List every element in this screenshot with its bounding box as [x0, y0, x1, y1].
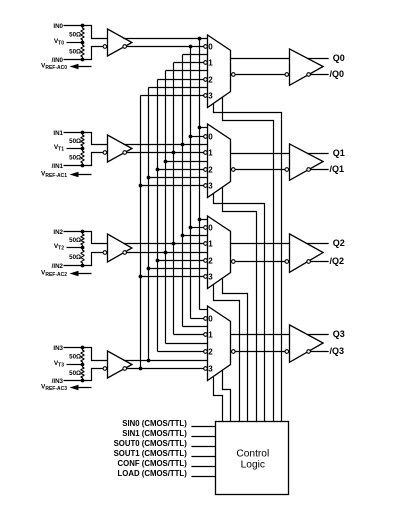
mux0 inverted output bubble [232, 73, 236, 77]
comparator U1 input bubble [103, 45, 107, 49]
wire /IN2 to comparator - input [64, 253, 104, 266]
node /IN3 junction [81, 379, 85, 383]
node junction (148.5,360.5) [147, 359, 151, 363]
mux2 input 2 bubble [204, 259, 208, 263]
comparator U1 [108, 29, 132, 56]
wire mux3 inverted output to buffer bubble [235, 351, 285, 353]
mux3 input 2 bubble [204, 350, 208, 354]
comparator U3 [108, 234, 132, 262]
svg-text:50Ω: 50Ω [69, 49, 81, 56]
svg-text:SIN0 (CMOS/TTL): SIN0 (CMOS/TTL) [122, 419, 187, 428]
svg-text:0: 0 [208, 132, 213, 141]
svg-text:/Q3: /Q3 [330, 346, 345, 356]
comparator U2 input bubble [103, 151, 107, 155]
svg-text:50Ω: 50Ω [69, 138, 81, 145]
wire mux3 input row 5 stub from v2 [158, 351, 204, 353]
wire Q2 output [307, 243, 329, 245]
svg-text:0: 0 [208, 223, 213, 232]
wire VT0 tap [67, 42, 83, 44]
node junction (173.5,152.5) [172, 151, 176, 155]
wire vertical distribution v6 (comp0 /out) [190, 47, 192, 319]
wire VT2 tap [67, 247, 83, 249]
node /IN0 junction [81, 58, 85, 62]
wire LOAD to control logic [191, 476, 215, 478]
resistor 50ohm lower (R4) [81, 149, 85, 166]
wire mux0 select B from control logic [223, 97, 274, 421]
svg-text:Q2: Q2 [333, 238, 345, 248]
wire mux1 select A from control logic [214, 193, 265, 421]
output buffer Q0 input bubble [285, 73, 289, 77]
wire mux3 input row 4 stub from v3 [166, 343, 208, 345]
resistor 50ohm upper (R7) [81, 348, 85, 365]
mux3 input 0 bubble [204, 317, 208, 321]
multiplexer MUX0 (4:1) [208, 35, 231, 108]
wire comp0 true output to mux0 input row 0 [124, 38, 208, 40]
node /IN2 junction [81, 264, 85, 268]
multiplexer MUX1 (4:1) [208, 124, 231, 198]
output buffer Q3 [290, 325, 324, 362]
node junction (182.5,144.5) [181, 143, 185, 147]
svg-text:/IN1: /IN1 [52, 163, 64, 170]
resistor 50ohm lower (R2) [81, 43, 85, 60]
wire mux0 input row 7 stub from v0 [141, 95, 204, 97]
svg-text:1: 1 [208, 148, 213, 157]
svg-text:/IN3: /IN3 [52, 378, 64, 385]
wire mux3 input row 3 stub from v4 [174, 334, 204, 336]
svg-text:/IN2: /IN2 [52, 263, 64, 270]
wire mux1 input row 0 stub from v7 [200, 127, 208, 129]
resistor 50ohm upper (R5) [81, 232, 85, 248]
wire mux0 input row 6 stub from v1 [149, 87, 208, 89]
node junction (173.5,243.5) [172, 242, 176, 246]
wire comp1 inverted output to mux1 input 1 bubble [127, 152, 204, 154]
mux0 input 3 bubble [204, 94, 208, 98]
svg-text:SIN1 (CMOS/TTL): SIN1 (CMOS/TTL) [122, 429, 187, 438]
wire /Q3 output [310, 351, 328, 353]
svg-text:CONF (CMOS/TTL): CONF (CMOS/TTL) [118, 459, 188, 468]
svg-text:IN1: IN1 [53, 130, 63, 137]
node junction (157.5,169.5) [156, 168, 160, 172]
comparator U4 output bubble [123, 367, 127, 371]
output buffer Q1 [290, 144, 324, 180]
wire SIN0 to control logic [191, 426, 215, 428]
wire mux2 input row 6 stub from v1 [149, 268, 208, 270]
wire mux2 true output to buffer [231, 243, 290, 245]
wire Q1 output [307, 153, 329, 155]
svg-text:1: 1 [208, 239, 213, 248]
svg-text:Control: Control [236, 449, 269, 460]
wire IN3 to comparator + input [64, 348, 108, 361]
svg-text:SOUT0 (CMOS/TTL): SOUT0 (CMOS/TTL) [114, 439, 188, 448]
svg-text:IN2: IN2 [53, 229, 63, 236]
svg-text:3: 3 [208, 272, 213, 281]
svg-text:Logic: Logic [241, 460, 265, 471]
input stage 2: IN2/VT2//IN2 network [41, 229, 132, 278]
input stage 3: IN3/VT3//IN3 network [41, 345, 132, 392]
comparator U4 input bubble [103, 367, 107, 371]
wire mux1 select B from control logic [223, 187, 257, 421]
svg-text:/IN0: /IN0 [52, 57, 64, 64]
input stage 1: IN1/VT1//IN1 network [41, 130, 132, 179]
svg-text:SOUT1 (CMOS/TTL): SOUT1 (CMOS/TTL) [114, 449, 188, 458]
mux2 input 0 bubble [204, 226, 208, 230]
node junction (190.5,46.5) [189, 45, 193, 49]
mux0 input 2 bubble [204, 78, 208, 82]
wire /Q2 output [310, 261, 328, 263]
mux2 input 3 bubble [204, 275, 208, 279]
control logic block [216, 422, 289, 495]
wire IN0 to comparator + input [64, 26, 108, 39]
output buffer Q3 output bubble [307, 350, 311, 354]
node IN3 junction [81, 346, 85, 350]
comparator U2 [108, 135, 132, 162]
wire mux2 inverted output to buffer bubble [235, 261, 285, 263]
svg-text:1: 1 [208, 58, 213, 67]
mux1 inverted output bubble [232, 168, 236, 172]
node junction (157.5,260.5) [156, 259, 160, 263]
arrow VREF-AC1 [74, 174, 92, 176]
svg-text:2: 2 [208, 256, 213, 265]
wire mux3 input row 2 stub from v5 [183, 326, 208, 328]
wire mux2 select B from control logic [223, 278, 248, 421]
comparator U3 output bubble [123, 251, 127, 255]
node IN0 junction [81, 24, 85, 28]
wire mux3 select A from control logic [214, 376, 223, 421]
mux2 input 1 bubble [204, 242, 208, 246]
wire vertical distribution v7 (comp0 out) [199, 39, 201, 310]
arrow VREF-AC0 [74, 66, 92, 68]
output buffer Q0 [290, 49, 324, 85]
output buffer Q2 [290, 234, 324, 272]
node /IN1 junction [81, 164, 85, 168]
wire vertical distribution v0 (comp3 /out) [140, 96, 142, 369]
output buffer Q0 output bubble [307, 73, 311, 77]
wire mux0 input row 4 stub from v3 [166, 70, 208, 72]
arrow VREF-AC2 [74, 273, 92, 275]
wire mux1 inverted output to buffer bubble [235, 169, 285, 171]
mux3 inverted output bubble [232, 350, 236, 354]
wire mux2 input row 7 stub from v0 [141, 276, 204, 278]
resistor 50ohm upper (R3) [81, 133, 85, 149]
node junction (165.5,252.5) [164, 251, 168, 255]
wire mux3 select B from control logic [223, 370, 231, 421]
mux3 input 3 bubble [204, 367, 208, 371]
node junction (165.5,161.5) [164, 160, 168, 164]
wire VT3 tap [67, 364, 83, 366]
node IN1 junction [81, 131, 85, 135]
input stage 0: IN0/VT0//IN0 network [41, 23, 132, 71]
wire comp0 inverted output to mux0 input 0 bubble [127, 46, 204, 48]
node junction (148.5,177.5) [147, 176, 151, 180]
svg-text:/Q2: /Q2 [330, 256, 345, 266]
wire vertical distribution v3 (comp2 out) [165, 71, 167, 344]
wire IN2 to comparator + input [64, 232, 108, 244]
output buffer Q3 input bubble [285, 350, 289, 354]
wire mux2 input row 1 stub from v6 [191, 227, 204, 229]
output buffer Q1 output bubble [307, 168, 311, 172]
mux2 inverted output bubble [232, 260, 236, 264]
wire VT1 tap [67, 148, 83, 150]
wire mux0 inverted output to buffer bubble [235, 74, 285, 76]
wire mux3 true output to buffer [231, 334, 290, 336]
wire Q3 output [307, 334, 329, 336]
wire SOUT1 to control logic [191, 456, 215, 458]
wire mux0 true output to buffer [231, 58, 290, 60]
wire mux0 select A from control logic [214, 103, 282, 421]
wire mux3 input row 1 stub from v6 [191, 318, 204, 320]
wire comp1 true output to mux1 input row [124, 144, 208, 146]
resistor 50ohm upper (R1) [81, 26, 85, 43]
svg-text:50Ω: 50Ω [69, 237, 81, 244]
wire SIN1 to control logic [191, 436, 215, 438]
wire mux1 input row 7 stub from v0 [141, 185, 204, 187]
svg-text:3: 3 [208, 364, 213, 373]
svg-text:2: 2 [208, 347, 213, 356]
resistor 50ohm lower (R6) [81, 248, 85, 266]
wire vertical distribution v4 (comp1 /out) [173, 63, 175, 335]
svg-text:50Ω: 50Ω [69, 370, 81, 377]
arrow VREF-AC3 [74, 387, 92, 389]
node junction (190.5,227.5) [189, 226, 193, 230]
wire mux0 input row 2 stub from v5 [183, 54, 208, 56]
wire mux1 input row 1 stub from v6 [191, 136, 204, 138]
wire /IN0 to comparator - input [64, 47, 104, 60]
svg-text:IN0: IN0 [53, 23, 63, 30]
svg-text:3: 3 [208, 181, 213, 190]
comparator U2 output bubble [123, 151, 127, 155]
resistor 50ohm lower (R8) [81, 365, 85, 381]
node junction (182.5,235.5) [181, 234, 185, 238]
node junction (140.5,185.5) [139, 184, 143, 188]
wire mux1 input row 4 stub from v3 [166, 161, 208, 163]
mux3 input 1 bubble [204, 333, 208, 337]
wire IN1 to comparator + input [64, 133, 108, 145]
node junction (148.5,268.5) [147, 267, 151, 271]
output buffer Q2 output bubble [307, 260, 311, 264]
svg-text:IN3: IN3 [53, 345, 63, 352]
svg-text:50Ω: 50Ω [69, 354, 81, 361]
node junction (199.5,127.5) [198, 126, 202, 130]
wire mux2 input row 5 stub from v2 [158, 260, 204, 262]
node VT3 junction [81, 363, 85, 367]
comparator U1 output bubble [123, 45, 127, 49]
wire mux1 true output to buffer [231, 153, 290, 155]
svg-text:/Q1: /Q1 [330, 164, 345, 174]
svg-text:0: 0 [208, 314, 213, 323]
wire /Q0 output [310, 74, 328, 76]
node VT0 junction [81, 41, 85, 45]
svg-text:0: 0 [208, 42, 213, 51]
multiplexer MUX2 (4:1) [208, 216, 231, 289]
svg-text:50Ω: 50Ω [69, 32, 81, 39]
mux1 input 2 bubble [204, 168, 208, 172]
svg-text:2: 2 [208, 75, 213, 84]
wire comp2 true output to mux2 input 1 bubble [124, 243, 204, 245]
wire comp3 inverted output to mux3 input 3 bubble [127, 368, 204, 370]
svg-text:Q0: Q0 [333, 53, 345, 63]
wire mux2 input row 0 stub from v7 [200, 219, 208, 221]
wire mux1 input row 5 stub from v2 [158, 169, 204, 171]
wire Q0 output [307, 58, 329, 60]
svg-text:LOAD (CMOS/TTL): LOAD (CMOS/TTL) [118, 469, 188, 478]
output buffer Q2 input bubble [285, 260, 289, 264]
node VT1 junction [81, 147, 85, 151]
svg-text:2: 2 [208, 165, 213, 174]
wire SOUT0 to control logic [191, 446, 215, 448]
wire mux0 input row 5 stub from v2 [158, 79, 204, 81]
mux0 input 1 bubble [204, 61, 208, 65]
wire /Q1 output [310, 169, 328, 171]
svg-text:3: 3 [208, 91, 213, 100]
wire comp3 true output to mux3 input row [124, 360, 208, 362]
node junction (199.5,38.5) [198, 37, 202, 41]
wire CONF to control logic [191, 466, 215, 468]
svg-text:1: 1 [208, 330, 213, 339]
node junction (140.5,368.5) [139, 367, 143, 371]
svg-text:Q1: Q1 [333, 148, 345, 158]
svg-text:50Ω: 50Ω [69, 155, 81, 162]
output buffer Q1 input bubble [285, 168, 289, 172]
wire mux0 input row 3 stub from v4 [174, 62, 204, 64]
wire vertical distribution v2 (comp2 /out) [157, 80, 159, 352]
mux1 input 0 bubble [204, 135, 208, 139]
wire mux3 input row 0 stub from v7 [200, 309, 208, 311]
node junction (140.5,276.5) [139, 275, 143, 279]
wire comp2 inverted output to mux2 input row [127, 252, 208, 254]
node junction (199.5,219.5) [198, 218, 202, 222]
mux0 input 0 bubble [204, 45, 208, 49]
wire mux2 select A from control logic [214, 284, 240, 421]
svg-text:50Ω: 50Ω [69, 254, 81, 261]
wire /IN3 to comparator - input [64, 369, 104, 381]
comparator U4 [108, 351, 132, 378]
svg-text:/Q0: /Q0 [330, 69, 345, 79]
wire vertical distribution v5 (comp1 out) [182, 55, 184, 327]
mux1 input 3 bubble [204, 184, 208, 188]
wire mux1 input row 6 stub from v1 [149, 177, 208, 179]
wire mux2 input row 2 stub from v5 [183, 235, 208, 237]
multiplexer MUX3 (4:1) [208, 306, 231, 381]
node junction (190.5,136.5) [189, 135, 193, 139]
wire vertical distribution v1 (comp3 out) [148, 88, 150, 361]
comparator U3 input bubble [103, 251, 107, 255]
svg-text:Q3: Q3 [333, 329, 345, 339]
wire /IN1 to comparator - input [64, 153, 104, 166]
node VT2 junction [81, 246, 85, 250]
mux1 input 1 bubble [204, 151, 208, 155]
node IN2 junction [81, 230, 85, 234]
